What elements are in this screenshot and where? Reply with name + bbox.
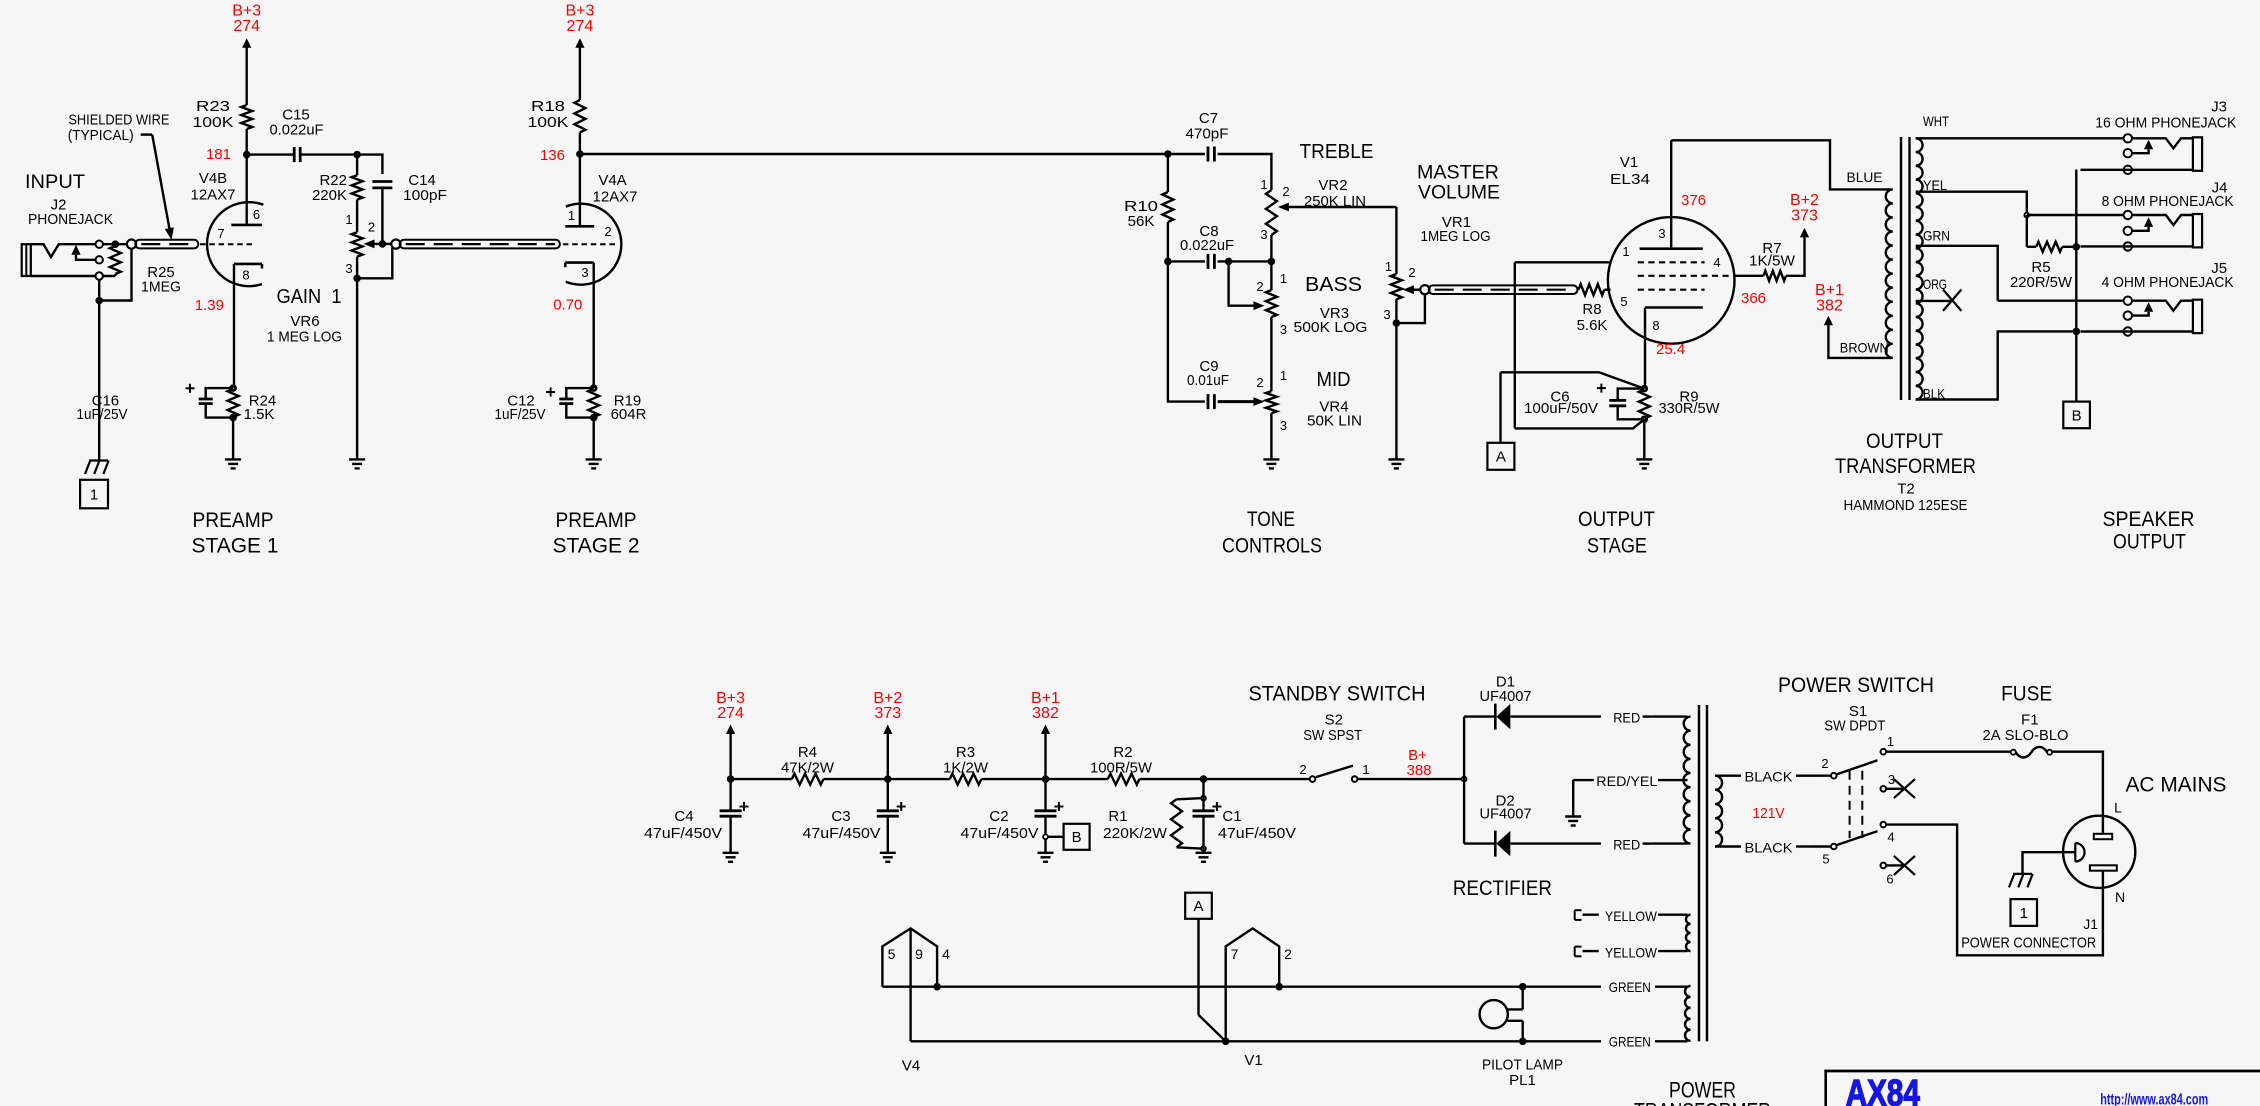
- shielded wire VR6 to V4A grid: [391, 240, 560, 249]
- svg-text:VOLUME: VOLUME: [1418, 183, 1500, 204]
- svg-text:WHT: WHT: [1923, 113, 1949, 129]
- junction VR1 pin3: [1394, 321, 1399, 326]
- svg-text:5: 5: [888, 946, 896, 962]
- terminal S2 pin2: [1310, 776, 1316, 782]
- ground under C4: [723, 853, 739, 862]
- svg-text:250K LIN: 250K LIN: [1304, 193, 1366, 210]
- label INPUT: [25, 172, 85, 193]
- wire R23 to node 181: [245, 129, 247, 155]
- switch S1 upper lever: [1837, 760, 1878, 774]
- output transformer T2 core: [1901, 137, 1910, 400]
- potentiometer VR2 TREBLE: [1260, 177, 1396, 242]
- label YELLOW (2): [1605, 944, 1658, 960]
- resistor R5: [2010, 242, 2076, 291]
- label POWER CONNECTOR: [1961, 935, 2096, 952]
- url ax84.com: [2100, 1092, 2208, 1106]
- ground under VR6: [349, 459, 365, 468]
- potentiometer VR4 MID: [1256, 368, 1287, 433]
- pin 5 label (V4): [888, 946, 896, 962]
- phonejack J5 body: [2193, 300, 2202, 333]
- label J1: [2083, 916, 2098, 932]
- pin 2 label: [604, 224, 611, 239]
- svg-text:136: 136: [540, 147, 565, 164]
- node 136: [540, 147, 582, 164]
- wire plate to transformer blue: [1671, 140, 1891, 189]
- svg-text:5: 5: [1620, 294, 1627, 309]
- label 16 OHM PHONEJACK: [2095, 115, 2236, 132]
- pin 3 label (S1): [1888, 772, 1895, 787]
- svg-text:SW DPDT: SW DPDT: [1824, 718, 1885, 735]
- svg-text:STAGE: STAGE: [1587, 535, 1647, 558]
- label BROWN wire: [1840, 340, 1889, 356]
- wire fuse to mains L: [2052, 752, 2103, 834]
- label 8 OHM PHONEJACK: [2102, 193, 2234, 210]
- label RED (lower): [1613, 837, 1640, 853]
- svg-text:6: 6: [253, 207, 260, 222]
- capacitor C15: [270, 107, 324, 163]
- svg-text:1 MEG LOG: 1 MEG LOG: [267, 329, 342, 346]
- resistor R24: [228, 386, 277, 423]
- svg-text:TONE: TONE: [1247, 508, 1295, 531]
- svg-text:2: 2: [1256, 375, 1263, 390]
- S1 pin6 stub and X: [1886, 856, 1915, 875]
- svg-text:(TYPICAL): (TYPICAL): [68, 127, 134, 144]
- svg-text:PL1: PL1: [1509, 1072, 1536, 1089]
- label GRN: [1923, 228, 1950, 244]
- ground under R9: [1636, 459, 1652, 468]
- pin 4 label: [1713, 255, 1720, 270]
- svg-text:AX84: AX84: [1846, 1073, 1920, 1106]
- svg-text:V4B: V4B: [199, 170, 227, 187]
- resistor R7: [1749, 240, 1796, 281]
- resistor R22: [312, 155, 363, 204]
- chassis ground input: [85, 461, 109, 475]
- terminal J2 sleeve: [96, 272, 103, 279]
- wire BLK tap: [1916, 331, 2073, 399]
- label VR2 250K LIN: [1304, 177, 1366, 210]
- potentiometer VR3 BASS: [1256, 261, 1287, 337]
- svg-text:4: 4: [1713, 255, 1720, 270]
- pilot lamp PL1: [1480, 987, 1523, 1042]
- svg-text:4: 4: [1887, 830, 1894, 845]
- svg-text:V4A: V4A: [598, 172, 626, 189]
- net box 1 (mains): [2011, 899, 2038, 926]
- node 0.70 label: [553, 297, 582, 314]
- svg-text:121V: 121V: [1753, 805, 1785, 822]
- svg-text:3: 3: [1260, 227, 1267, 242]
- svg-text:PREAMP: PREAMP: [193, 509, 274, 532]
- junction R22 top: [355, 152, 360, 157]
- switch S2 lever: [1316, 766, 1353, 778]
- svg-text:1.5K: 1.5K: [244, 406, 275, 423]
- wire VR1 to ground: [1395, 323, 1397, 459]
- junction R5 trunk: [2074, 244, 2079, 249]
- resistor R23: [193, 98, 253, 131]
- wire node181 to C15: [247, 153, 295, 155]
- svg-text:YELLOW: YELLOW: [1605, 908, 1658, 924]
- capacitor C3 (filter): [803, 779, 906, 853]
- svg-text:L: L: [2114, 799, 2122, 815]
- capacitor C7: [1186, 110, 1229, 162]
- svg-text:BLUE: BLUE: [1847, 169, 1883, 185]
- svg-text:MASTER: MASTER: [1417, 163, 1499, 184]
- label J4: [2212, 180, 2228, 197]
- ground under C3: [880, 853, 896, 862]
- svg-text:2: 2: [1821, 756, 1828, 771]
- yellow lead 2: [1575, 947, 1688, 957]
- svg-text:CONTROLS: CONTROLS: [1222, 535, 1322, 558]
- junction V1 pin7: [1223, 1039, 1228, 1044]
- V4A plate: [565, 154, 594, 226]
- label J2 PHONEJACK: [28, 197, 113, 229]
- svg-text:500K LOG: 500K LOG: [1294, 319, 1368, 336]
- svg-text:B+3: B+3: [565, 3, 594, 20]
- svg-text:GREEN: GREEN: [1609, 1034, 1651, 1050]
- speaker common trunk: [2075, 170, 2077, 402]
- phonejack J2 tip contact: [31, 244, 96, 257]
- wire R10 top: [1167, 154, 1169, 192]
- wire R7 to B+2: [1786, 228, 1809, 276]
- junction C2 node: [1043, 777, 1048, 782]
- label VR6: [267, 313, 342, 346]
- svg-text:VR2: VR2: [1318, 177, 1347, 194]
- svg-text:12AX7: 12AX7: [191, 187, 236, 204]
- V1 cathode pin8: [1645, 308, 1703, 389]
- power B+1 label (output): [1815, 282, 1844, 315]
- potentiometer VR6 GAIN 1: [345, 200, 382, 276]
- svg-text:FUSE: FUSE: [2001, 683, 2052, 706]
- label BLK: [1923, 386, 1946, 402]
- svg-text:B: B: [1072, 829, 1082, 846]
- wire C7 to treble: [1218, 154, 1272, 190]
- svg-text:HAMMOND 125ESE: HAMMOND 125ESE: [1844, 497, 1968, 514]
- svg-text:UF4007: UF4007: [1480, 688, 1532, 705]
- logo AX84: [1846, 1073, 1920, 1106]
- node B+ 388 label: [1406, 747, 1431, 779]
- svg-text:12AX7: 12AX7: [593, 189, 638, 206]
- svg-text:3: 3: [345, 261, 352, 276]
- wire R8 to grid: [1604, 289, 1610, 291]
- svg-text:S2: S2: [1325, 711, 1343, 728]
- svg-text:RED: RED: [1613, 710, 1640, 726]
- wire bass to mid: [1270, 317, 1272, 391]
- svg-text:OUTPUT: OUTPUT: [1866, 430, 1943, 453]
- label S1 SW DPDT: [1824, 703, 1885, 735]
- svg-text:RECTIFIER: RECTIFIER: [1453, 877, 1552, 900]
- svg-text:2A SLO-BLO: 2A SLO-BLO: [1983, 727, 2069, 744]
- svg-text:B+1: B+1: [1815, 282, 1844, 299]
- svg-text:100pF: 100pF: [403, 187, 447, 204]
- svg-text:V4: V4: [902, 1058, 920, 1075]
- junction tone input: [1165, 152, 1170, 157]
- svg-text:388: 388: [1406, 762, 1431, 779]
- chassis ground mains: [2009, 874, 2033, 888]
- wire J5 sleeve: [2081, 330, 2193, 332]
- capacitor C9: [1187, 358, 1229, 409]
- svg-text:1.39: 1.39: [195, 297, 224, 314]
- svg-text:1K/5W: 1K/5W: [1749, 253, 1796, 270]
- wire R3 to B+1 node: [981, 778, 1045, 780]
- node 1.39 label: [195, 297, 224, 314]
- svg-text:C3: C3: [831, 808, 850, 825]
- net box 1 input: [80, 480, 108, 509]
- shielded wire VR1 to R8: [1420, 285, 1577, 294]
- svg-text:1: 1: [1385, 259, 1392, 274]
- wire YEL to J4 tip: [2027, 214, 2125, 216]
- wire ORG tap: [1916, 300, 1951, 302]
- svg-text:50K LIN: 50K LIN: [1307, 413, 1362, 430]
- svg-text:7: 7: [1231, 946, 1239, 962]
- terminal S1 pin4: [1881, 822, 1887, 828]
- svg-text:0.022uF: 0.022uF: [270, 122, 324, 139]
- terminal J2 ring: [96, 256, 103, 263]
- net box A (output stage): [1487, 443, 1514, 470]
- label PREAMP STAGE 2: [553, 509, 640, 558]
- svg-text:3: 3: [581, 265, 588, 280]
- leader arrow to shielded wire: [152, 135, 174, 240]
- label SPEAKER OUTPUT: [2103, 508, 2195, 553]
- terminal S2 pin1: [1352, 776, 1358, 782]
- wire to C7: [1168, 153, 1205, 155]
- T2 secondary winding: [1916, 138, 1923, 399]
- svg-text:RED: RED: [1613, 837, 1640, 853]
- svg-text:SHIELDED WIRE: SHIELDED WIRE: [68, 112, 169, 129]
- svg-text:1: 1: [1622, 244, 1629, 259]
- heater bus lower: [911, 1040, 1688, 1042]
- wire R9 to ground: [1643, 419, 1645, 459]
- wire RED/YEL center tap: [1573, 779, 1687, 781]
- plug ground pin: [2075, 843, 2084, 862]
- yellow lead 1: [1575, 910, 1688, 920]
- label TREBLE: [1300, 141, 1374, 163]
- ground under R19: [586, 459, 602, 468]
- label VR1 1MEG LOG: [1421, 214, 1491, 245]
- svg-text:100R/5W: 100R/5W: [1090, 759, 1153, 776]
- label ORG: [1923, 276, 1947, 292]
- wire R4 to B+2 node: [823, 778, 887, 780]
- phonejack J2 sleeve line: [31, 275, 116, 277]
- svg-text:OUTPUT: OUTPUT: [2113, 530, 2186, 553]
- wire R24 to ground: [232, 418, 234, 460]
- pin 4 label (V4): [942, 946, 950, 962]
- label V4A 12AX7: [593, 172, 638, 206]
- phonejack J4 switch arrow: [2132, 217, 2153, 231]
- svg-text:2: 2: [1282, 184, 1289, 199]
- ground center tap: [1565, 817, 1581, 826]
- label VR3 500K LOG: [1294, 305, 1368, 336]
- pin 7 label (V1): [1231, 946, 1239, 962]
- resistor R19: [588, 386, 646, 423]
- label VR4 50K LIN: [1307, 399, 1362, 430]
- svg-text:47uF/450V: 47uF/450V: [1218, 825, 1296, 842]
- pin 1 label (S1): [1887, 734, 1894, 749]
- svg-text:T2: T2: [1897, 481, 1915, 498]
- T1 yellow winding: [1686, 915, 1691, 951]
- pin 5 label (S1): [1822, 852, 1829, 867]
- svg-text:2: 2: [1408, 265, 1415, 280]
- junction V1 pin2: [1277, 984, 1282, 989]
- svg-text:3: 3: [1280, 418, 1287, 433]
- label BASS: [1305, 274, 1362, 296]
- svg-text:5: 5: [1822, 852, 1829, 867]
- label N: [2115, 889, 2125, 905]
- V4 heater pins: [882, 928, 937, 1041]
- svg-text:AC MAINS: AC MAINS: [2126, 774, 2227, 797]
- capacitor C6: [1524, 384, 1643, 420]
- terminal S1 pin1: [1881, 749, 1887, 755]
- V1 g3 dashed pin1: [1638, 261, 1705, 263]
- pin 3 label: [581, 265, 588, 280]
- svg-text:YEL: YEL: [1923, 177, 1947, 193]
- svg-text:STANDBY SWITCH: STANDBY SWITCH: [1249, 683, 1426, 706]
- wire RED to winding: [1652, 715, 1687, 717]
- pin 1 label (S2): [1362, 762, 1369, 777]
- svg-text:J3: J3: [2211, 98, 2227, 115]
- wire S2 to rectifier: [1358, 778, 1465, 780]
- wire R19 to ground: [593, 418, 595, 460]
- label YELLOW (1): [1605, 908, 1658, 924]
- svg-text:YELLOW: YELLOW: [1605, 944, 1658, 960]
- net box B (speakers): [2063, 402, 2090, 429]
- resistor R10: [1124, 192, 1173, 230]
- power transformer T1 core: [1699, 705, 1707, 1041]
- switch S1 lower lever: [1837, 831, 1878, 845]
- wire mid to ground: [1270, 413, 1272, 459]
- svg-text:220K/2W: 220K/2W: [1103, 825, 1168, 842]
- wire RED lower to winding: [1652, 842, 1687, 844]
- label F1 2A SLO-BLO: [1983, 711, 2069, 744]
- svg-text:3: 3: [1280, 322, 1287, 337]
- wire C4 to R4: [731, 778, 792, 780]
- wire C1 to S2: [1204, 778, 1310, 780]
- bass wiper arrow: [1253, 301, 1264, 310]
- T2 primary winding: [1886, 189, 1893, 358]
- capacitor C14: [372, 172, 447, 204]
- phonejack J5 switch arrow: [2132, 302, 2153, 316]
- title block border: [1824, 1070, 2260, 1106]
- svg-text:56K: 56K: [1128, 213, 1155, 230]
- heater bus upper: [882, 986, 1687, 988]
- capacitor C8: [1180, 223, 1234, 269]
- junction pilot upper: [1520, 984, 1525, 989]
- resistor R4: [781, 744, 835, 785]
- junction C8-bass: [1226, 259, 1231, 264]
- terminal S1 pin6: [1881, 863, 1887, 869]
- wire treble pin3 down: [1270, 235, 1272, 261]
- T1 primary winding: [1715, 776, 1722, 847]
- svg-text:2: 2: [1284, 946, 1292, 962]
- label STANDBY SWITCH: [1249, 683, 1426, 706]
- svg-text:47uF/450V: 47uF/450V: [644, 825, 722, 842]
- label BLACK (lower): [1745, 839, 1794, 855]
- phonejack J4 tip contact: [2132, 215, 2193, 225]
- phonejack J2 body: [22, 244, 31, 276]
- svg-text:181: 181: [206, 146, 231, 163]
- V4B cathode: [234, 264, 262, 388]
- phonejack J3 tip contact: [2132, 138, 2193, 148]
- phonejack J3 switch arrow: [2132, 140, 2153, 154]
- junction treble-C8: [1269, 259, 1274, 264]
- phonejack J5 tip contact: [2132, 301, 2193, 311]
- B+2 arrow (psu): [883, 725, 892, 780]
- svg-text:R23: R23: [196, 98, 230, 115]
- wire N to switch: [1886, 825, 2103, 956]
- label SHIELDED WIRE (TYPICAL): [68, 112, 170, 145]
- wire treble to VR1: [1395, 207, 1397, 274]
- svg-text:382: 382: [1032, 705, 1059, 722]
- svg-text:B: B: [2072, 407, 2082, 424]
- label T2 HAMMOND 125ESE: [1844, 481, 1968, 515]
- power B+3 (stage 2): [565, 3, 594, 101]
- svg-text:http://www.ax84.com: http://www.ax84.com: [2100, 1092, 2208, 1106]
- svg-text:B+2: B+2: [1790, 192, 1819, 209]
- capacitor C2 (filter): [961, 779, 1064, 853]
- svg-text:1MEG: 1MEG: [141, 279, 181, 296]
- svg-text:1uF/25V: 1uF/25V: [77, 406, 128, 423]
- svg-text:25.4: 25.4: [1656, 341, 1685, 358]
- label BLUE wire: [1847, 169, 1883, 185]
- potentiometer VR1 MASTER: [1383, 259, 1421, 322]
- net box B (psu): [1064, 824, 1090, 850]
- junction VR6 wiper node: [380, 241, 385, 246]
- wire C14 to wiper node: [381, 188, 383, 244]
- svg-text:R1: R1: [1108, 808, 1127, 825]
- pin 3 label: [1658, 226, 1665, 241]
- junction YEL node: [2024, 213, 2029, 218]
- label J3: [2211, 98, 2227, 115]
- svg-text:C4: C4: [674, 808, 693, 825]
- resistor R3: [943, 744, 989, 785]
- label L: [2114, 799, 2122, 815]
- pin 1 label: [1622, 244, 1629, 259]
- net box A (heater): [1185, 893, 1212, 919]
- fuse F1: [2011, 747, 2052, 758]
- pin 2 label (S2): [1299, 762, 1306, 777]
- T1 green winding: [1685, 986, 1690, 1041]
- svg-text:GAIN 1: GAIN 1: [277, 286, 342, 308]
- svg-text:376: 376: [1681, 192, 1706, 209]
- label FUSE: [2001, 683, 2052, 706]
- svg-text:2: 2: [1299, 762, 1306, 777]
- svg-text:4 OHM PHONEJACK: 4 OHM PHONEJACK: [2102, 274, 2234, 291]
- svg-text:GREEN: GREEN: [1609, 979, 1651, 995]
- V1 g2 dashed pin4: [1638, 275, 1730, 277]
- svg-text:1K/2W: 1K/2W: [943, 759, 989, 776]
- label S2 SW SPST: [1303, 711, 1362, 744]
- svg-text:OUTPUT: OUTPUT: [1578, 508, 1655, 531]
- svg-text:BROWN: BROWN: [1840, 340, 1889, 356]
- node 366 label: [1741, 290, 1766, 307]
- svg-text:382: 382: [1816, 298, 1843, 315]
- wire net A to cathode: [1501, 372, 1645, 388]
- svg-text:470pF: 470pF: [1186, 126, 1229, 143]
- power B+2 label (psu): [873, 690, 902, 722]
- wire shield drain VR6: [357, 248, 392, 279]
- label RED (upper): [1613, 710, 1640, 726]
- svg-text:GRN: GRN: [1923, 228, 1950, 244]
- svg-text:A: A: [1496, 449, 1506, 466]
- capacitor C4 (filter): [644, 779, 749, 853]
- svg-text:B+3: B+3: [232, 3, 261, 20]
- svg-text:6: 6: [1886, 872, 1893, 887]
- resistor R25: [110, 244, 181, 295]
- svg-text:1: 1: [345, 212, 352, 227]
- wire tip to shield: [102, 243, 131, 245]
- wire to R3: [888, 778, 950, 780]
- junction C3 node: [885, 777, 890, 782]
- shielded wire input: [127, 240, 198, 249]
- svg-text:EL34: EL34: [1610, 171, 1650, 188]
